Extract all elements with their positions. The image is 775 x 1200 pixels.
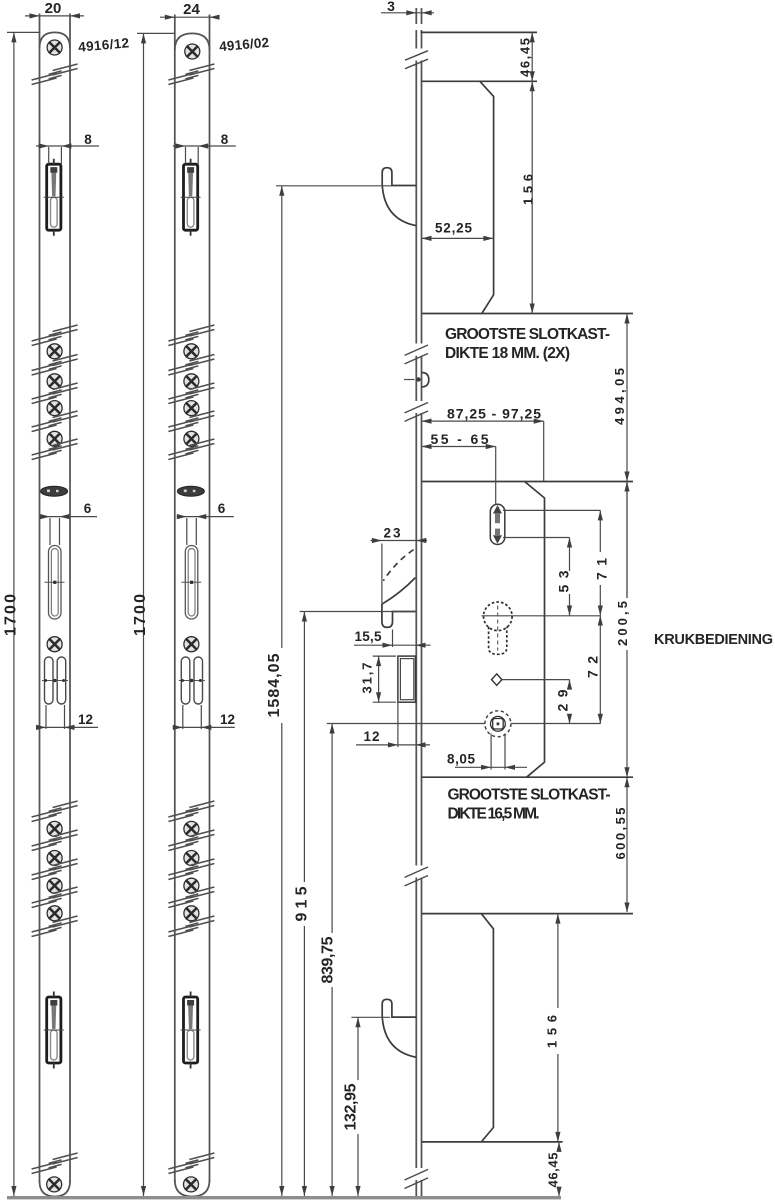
svg-text:132,95: 132,95 (343, 1083, 360, 1130)
svg-text:72: 72 (585, 656, 601, 678)
svg-text:156: 156 (545, 1015, 560, 1048)
svg-text:GROOTSTE SLOTKAST-: GROOTSTE SLOTKAST- (448, 787, 611, 804)
svg-text:46,45: 46,45 (546, 1153, 561, 1188)
svg-text:GROOTSTE SLOTKAST-: GROOTSTE SLOTKAST- (445, 326, 610, 343)
svg-text:KRUKBEDIENING: KRUKBEDIENING (654, 632, 773, 648)
svg-text:8: 8 (221, 132, 229, 147)
svg-text:53: 53 (556, 570, 572, 592)
svg-text:494,05: 494,05 (612, 368, 627, 425)
svg-text:55 - 65: 55 - 65 (431, 431, 489, 447)
svg-text:20: 20 (45, 0, 62, 17)
svg-text:1700: 1700 (132, 594, 149, 636)
svg-text:3: 3 (387, 0, 395, 14)
svg-text:46,45: 46,45 (518, 38, 533, 77)
svg-text:839,75: 839,75 (320, 936, 337, 983)
svg-text:31,7: 31,7 (360, 663, 375, 694)
svg-text:52,25: 52,25 (435, 221, 472, 236)
svg-text:8: 8 (84, 132, 92, 147)
svg-text:DIKTE 16,5 MM.: DIKTE 16,5 MM. (448, 806, 540, 823)
svg-text:4916/02: 4916/02 (219, 35, 270, 54)
svg-text:71: 71 (594, 558, 610, 580)
svg-text:8,05: 8,05 (447, 752, 475, 767)
svg-text:87,25 - 97,25: 87,25 - 97,25 (447, 405, 541, 421)
svg-text:23: 23 (384, 526, 401, 541)
svg-text:4916/12: 4916/12 (78, 35, 130, 54)
svg-text:12: 12 (220, 712, 235, 727)
svg-text:200,5: 200,5 (615, 601, 630, 646)
svg-text:6: 6 (218, 501, 226, 516)
svg-text:DIKTE 18 MM. (2X): DIKTE 18 MM. (2X) (445, 345, 570, 362)
svg-text:156: 156 (521, 174, 536, 205)
svg-text:15,5: 15,5 (355, 629, 382, 644)
svg-text:600,55: 600,55 (613, 808, 628, 860)
svg-text:1700: 1700 (3, 594, 20, 636)
svg-text:6: 6 (84, 501, 92, 516)
svg-text:12: 12 (364, 729, 380, 744)
svg-text:915: 915 (294, 886, 311, 921)
svg-text:29: 29 (555, 689, 571, 711)
svg-text:1584,05: 1584,05 (266, 653, 283, 717)
svg-text:12: 12 (78, 712, 93, 727)
svg-text:24: 24 (183, 1, 200, 18)
